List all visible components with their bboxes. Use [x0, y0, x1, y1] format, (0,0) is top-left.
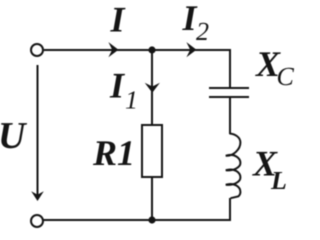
svg-text:U: U: [0, 115, 28, 157]
svg-text:I: I: [109, 66, 126, 106]
svg-text:1: 1: [125, 86, 138, 115]
svg-text:R1: R1: [92, 133, 135, 173]
svg-text:C: C: [277, 62, 295, 91]
svg-text:L: L: [270, 166, 287, 195]
svg-text:I: I: [110, 0, 127, 40]
svg-text:2: 2: [196, 17, 209, 46]
